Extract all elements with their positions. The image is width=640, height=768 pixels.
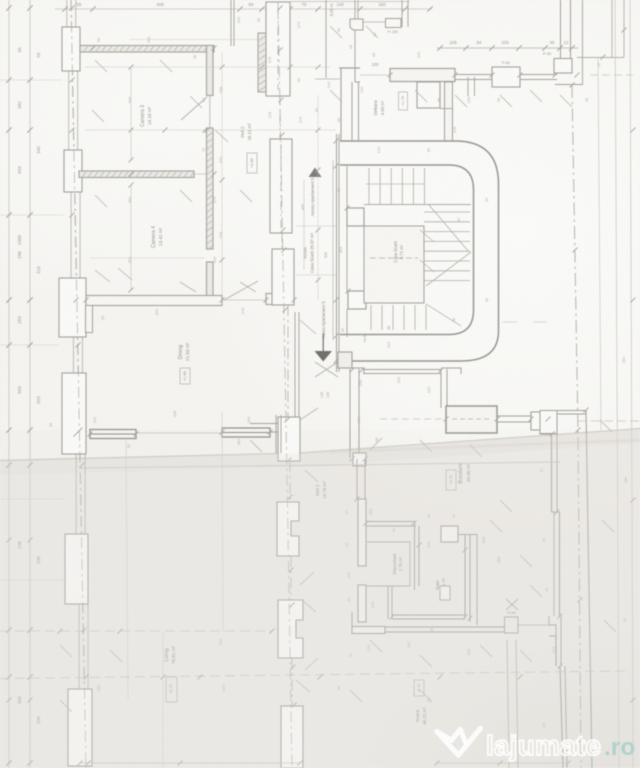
dim line y130: [85, 129, 336, 131]
main wall D band x390-455: [390, 69, 455, 82]
door swing marks: [60, 26, 616, 712]
corridor left outer wall: [336, 134, 338, 372]
right wall x587 long: [586, 410, 592, 768]
level box +1.80 hol2: [247, 153, 257, 173]
bath mid vertical double: [414, 521, 416, 590]
bath bottom wall double: [392, 614, 465, 616]
bath top wall double: [366, 521, 416, 523]
pier C6 notched: [278, 600, 303, 658]
door leaf Camera3: [181, 97, 207, 120]
dimension line left inner: [29, 0, 31, 768]
wall D thin x455-492: [455, 74, 492, 76]
dimension numbers left margin: [17, 47, 41, 724]
wall top-mid room right: [354, 0, 356, 68]
stair top flight mid line: [366, 183, 424, 185]
wall left room col inner: [351, 82, 353, 141]
pier C5 notched: [277, 502, 299, 556]
pier kitchen right: [531, 412, 548, 430]
wall H-A hatch: [84, 46, 214, 51]
dimension line left outer: [8, 0, 10, 768]
pier A3: [59, 278, 86, 337]
dim line y462: [80, 462, 560, 468]
bath inner vertical: [391, 586, 393, 619]
wall segment x295-299: [294, 312, 296, 417]
dim verticals bottom living: [162, 632, 164, 768]
right top wall double x560-571: [560, 0, 562, 58]
corridor left wall extra line: [332, 160, 334, 340]
pier C7: [281, 706, 303, 768]
bath right vertical 3: [476, 534, 478, 625]
kitchen fixture rect: [446, 406, 497, 433]
bath left wall lower bar: [358, 585, 366, 622]
wall stub to stair hall: [445, 82, 453, 141]
level box salla: [414, 680, 424, 696]
fold tint overlay: [0, 429, 640, 768]
window band 2: [222, 428, 270, 437]
corridor left inner wall segments: [346, 166, 348, 208]
pier E below wall D: [417, 82, 440, 108]
wall V-B door gap line: [209, 95, 211, 128]
door gap H-B: [194, 173, 207, 175]
fold crease line: [0, 429, 640, 461]
wall D thin x520-557: [520, 74, 557, 76]
hatched wall above pier C1: [258, 33, 266, 92]
dim dashed y631: [0, 630, 272, 632]
dashed horizontal right y322: [503, 321, 552, 323]
wall H-B: [79, 171, 194, 178]
right wall jog1: [552, 511, 560, 513]
wall axis A outline: [66, 0, 68, 27]
dim line x318 vertical: [317, 95, 319, 300]
access arrow apartment 5: [309, 168, 322, 178]
corridor outer wall: [340, 141, 499, 361]
bath wall from corridor: [356, 459, 358, 499]
wall stub left of pier C4: [250, 423, 278, 425]
pier C1 tall: [266, 2, 290, 96]
pier A6: [68, 689, 92, 766]
fixture connector: [363, 21, 385, 23]
dim line y67: [85, 66, 330, 68]
level box dining: [180, 368, 190, 384]
watermark logo heart W: [437, 728, 481, 755]
stair direction diagonal 3: [426, 304, 461, 326]
wall H-A: [80, 46, 214, 53]
pier A1: [62, 27, 80, 71]
wall cap below corridor: [347, 368, 364, 374]
wc fixture: [440, 586, 450, 600]
chimney square: [441, 526, 458, 542]
door cross below arrow: [315, 362, 338, 377]
right wall notch: [549, 616, 556, 636]
wall down from window2: [275, 415, 277, 453]
lower wall band thick: [352, 627, 385, 634]
stair void rect: [364, 226, 424, 303]
wall kitchen to corner: [548, 413, 586, 415]
stair mid landing line: [364, 204, 471, 206]
dimension ticks left margin: [6, 5, 33, 766]
pier C2 tall: [270, 139, 292, 233]
stair pier S1: [347, 208, 364, 226]
pier A4: [62, 373, 86, 454]
dimension line top: [55, 8, 432, 10]
pier below corridor left: [353, 453, 366, 466]
fixture sink top: [350, 19, 363, 30]
left margin horizontal connectors: [0, 79, 62, 81]
right wall x560 seg2: [559, 512, 561, 616]
dim line y418 dashed mid: [380, 418, 446, 420]
pier A5: [65, 534, 88, 604]
dashed horizontal right y421: [578, 420, 640, 422]
dim vertical x222 lower: [222, 412, 223, 632]
kitchen wall to pier: [497, 415, 531, 417]
svg-text:.ro: .ro: [604, 734, 635, 761]
pier right of kitchen wall: [540, 411, 557, 434]
dim line y39: [130, 39, 258, 41]
stair direction diagonal 2: [426, 252, 471, 286]
right wall seg4 to bottom: [560, 666, 563, 768]
fixture P-150: [386, 19, 402, 28]
paper fold shading: [0, 429, 640, 768]
wall top-mid double right: [401, 0, 403, 27]
depozitare room outline: [367, 542, 410, 586]
right top corner walls: [611, 0, 613, 57]
wall V-B mid: [207, 128, 214, 249]
wall H-C left: [86, 296, 222, 306]
stair top flight steps: [369, 168, 425, 204]
square connector: [518, 624, 549, 626]
window band 1: [90, 430, 136, 439]
bath left wall upper bar: [358, 499, 366, 566]
dim line x131 camera4: [130, 185, 132, 290]
right wall x552 seg1: [551, 434, 553, 512]
short wall below band D: [467, 77, 469, 96]
top edge room line: [290, 1, 410, 3]
right top corner L: [555, 84, 583, 86]
door H-C leaf: [224, 281, 258, 300]
corner pier bottom-left of corridor: [338, 352, 352, 368]
dim vertical x126: [126, 440, 128, 700]
level box +1.75 debara: [399, 92, 408, 110]
wall V-B upper: [207, 46, 214, 96]
faint margin line right0: [598, 57, 601, 430]
axis dashed right: [572, 85, 581, 768]
dim line camera3 interior: [130, 67, 132, 160]
room top wall double: [363, 369, 441, 371]
wall top x231: [230, 0, 232, 46]
wall right jog upper: [540, 411, 552, 435]
axis A dashes overlay: [71, 0, 86, 768]
axis C dashes overlay: [278, 2, 292, 768]
level box living: [166, 677, 177, 702]
faint margin line right1: [615, 0, 619, 768]
bath top right connector: [458, 534, 477, 536]
faint margin line right2: [630, 0, 633, 768]
wall column between room and corridor: [339, 67, 360, 69]
stair direction diagonal 1: [429, 205, 469, 252]
lower wall hook: [351, 612, 353, 626]
paper noise filter def: [0, 0, 1, 1]
pier D2: [554, 59, 572, 74]
dim line x507 bottom: [507, 640, 509, 768]
bath right vertical 1: [464, 535, 466, 618]
stair right flight steps: [424, 212, 470, 281]
bottom faint line: [80, 762, 300, 764]
pier A2: [64, 150, 82, 192]
wall axis A centerline: [71, 0, 86, 768]
dim line x222 vertical: [221, 52, 223, 295]
dim lines acces strip: [296, 225, 336, 227]
pier C3: [272, 249, 294, 305]
wall stub column to kitchen: [440, 369, 442, 408]
stair pier S2: [348, 291, 366, 309]
access arrow down apartment 5: [315, 351, 333, 362]
wall below corridor left double: [349, 369, 351, 458]
level box bucatarie: [446, 470, 456, 490]
dim line y258 mid: [90, 257, 205, 259]
wall V-B lower: [207, 262, 214, 302]
wall line between windows: [136, 432, 222, 434]
pier D1: [492, 67, 520, 87]
small square +0.88: [505, 617, 519, 633]
cross mark right: [506, 599, 518, 610]
dashed horizontal right upper: [590, 74, 633, 76]
stair bottom flight steps: [371, 305, 426, 330]
wall stub below pier A3: [86, 306, 93, 333]
wall corner top-mid: [315, 78, 340, 80]
door gap x360-390 dims: [360, 74, 390, 76]
pier C4: [278, 417, 300, 461]
wall axis C centerline lower: [287, 305, 289, 417]
dim dashed y677: [0, 671, 626, 679]
right wall x561 seg3: [555, 636, 557, 666]
pier E connector: [440, 108, 452, 110]
dimension line top right: [437, 47, 578, 49]
wall top-mid room left: [325, 0, 327, 78]
svg-text:lajumate: lajumate: [486, 730, 601, 761]
wall H-C right piece: [266, 294, 294, 305]
corridor inner wall: [340, 165, 474, 335]
lower wall thin double: [385, 626, 504, 628]
wall axis C centerline upper: [279, 96, 281, 139]
bath right vertical 2: [469, 535, 471, 622]
